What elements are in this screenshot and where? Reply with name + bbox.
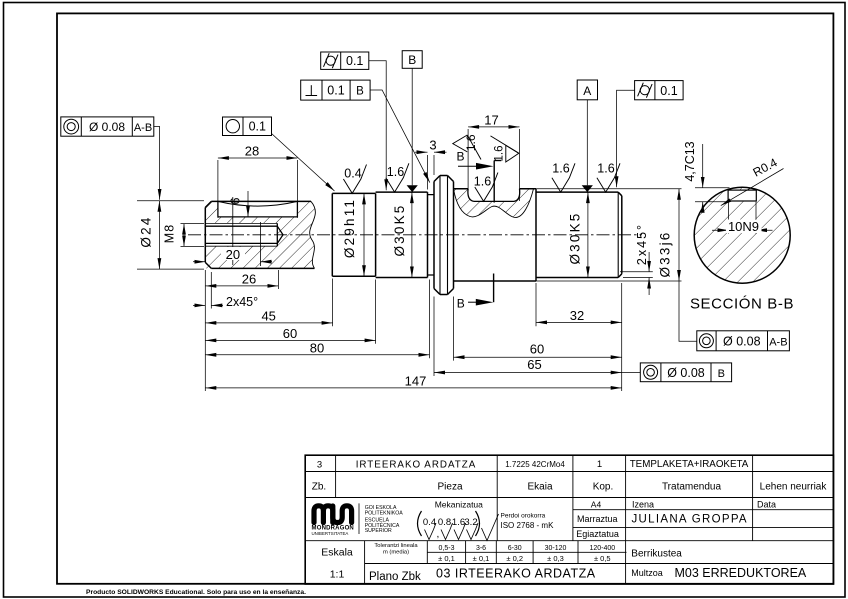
svg-text:± 0,2: ± 0,2 — [506, 554, 523, 563]
svg-text:28: 28 — [245, 144, 259, 159]
svg-text:m (media): m (media) — [383, 549, 409, 555]
svg-text:Kop.: Kop. — [593, 482, 614, 493]
surface finish 1.6 rotated on keyway left wall — [453, 135, 481, 160]
leader to flange face — [370, 90, 430, 183]
svg-text:Izena: Izena — [632, 499, 654, 509]
keyway pocket on O24 — [218, 201, 298, 217]
svg-text:TEMPLAKETA+IRAOKETA: TEMPLAKETA+IRAOKETA — [630, 459, 749, 470]
GDT frame cylindricity 0.1 right — [635, 81, 684, 100]
leader to O29 surface — [272, 134, 335, 192]
svg-text:0.8: 0.8 — [438, 517, 451, 528]
GDT frame runout O0.08 B right — [640, 363, 731, 382]
svg-text:3: 3 — [429, 137, 436, 152]
svg-text:Ø24: Ø24 — [138, 215, 153, 247]
svg-text:0,5-3: 0,5-3 — [439, 545, 455, 552]
svg-text:20: 20 — [226, 247, 240, 262]
svg-text:30-120: 30-120 — [545, 545, 567, 552]
shaft section O30K5 right with end chamfer — [536, 192, 622, 277]
svg-text:A4: A4 — [591, 499, 602, 509]
svg-text:± 0,5: ± 0,5 — [594, 554, 611, 563]
svg-text:1.6: 1.6 — [387, 165, 404, 179]
centerline of shaft — [188, 234, 642, 236]
leader down to O30K5 left surface — [369, 61, 386, 191]
svg-text:1.6: 1.6 — [494, 146, 506, 162]
leader from top-left frame down to O24 extension — [154, 127, 160, 200]
svg-text:60: 60 — [530, 342, 544, 357]
svg-text:1:1: 1:1 — [330, 569, 345, 581]
svg-text:R0.4: R0.4 — [751, 155, 780, 179]
Mondragon logo — [314, 506, 352, 523]
svg-text:2x45°: 2x45° — [226, 295, 258, 309]
svg-text:Marraztua: Marraztua — [577, 514, 618, 524]
svg-text:0.1: 0.1 — [327, 84, 344, 98]
dimension O30K5 right — [587, 192, 589, 277]
svg-text:1.7225 42CrMo4: 1.7225 42CrMo4 — [505, 460, 565, 469]
flange — [434, 176, 454, 295]
svg-text:32: 32 — [570, 308, 584, 323]
svg-text:IRTEERAKO ARDATZA: IRTEERAKO ARDATZA — [356, 460, 477, 471]
svg-text:1.6: 1.6 — [452, 517, 465, 528]
wavy break line — [310, 201, 316, 268]
svg-text:Tolerantzi lineala: Tolerantzi lineala — [374, 543, 418, 549]
shaft section O30K5 left — [376, 192, 428, 277]
GDT frame concentricity O0.08 A-B top-left — [61, 117, 154, 136]
datum A box — [577, 80, 597, 100]
svg-text:1: 1 — [597, 459, 602, 470]
svg-text:17: 17 — [484, 112, 498, 127]
shaft section O24 hatch (local section) — [205, 201, 315, 268]
svg-text:65: 65 — [527, 357, 541, 372]
svg-text:Multzoa: Multzoa — [631, 568, 663, 578]
svg-text:45: 45 — [261, 308, 275, 323]
svg-text:Berrikustea: Berrikustea — [631, 549, 682, 560]
svg-text:Ø30K5: Ø30K5 — [568, 211, 583, 264]
svg-text:0.1: 0.1 — [660, 84, 677, 98]
datum A leader and triangle — [586, 100, 588, 186]
svg-text:B: B — [356, 86, 364, 98]
svg-text:0.4: 0.4 — [344, 166, 361, 180]
dimension 20 (thread depth) — [193, 261, 272, 263]
dimension 6 keyway depth — [247, 191, 249, 217]
dimension 60 right — [454, 356, 622, 358]
svg-text:3.2: 3.2 — [464, 517, 477, 528]
svg-text:Lehen neurriak: Lehen neurriak — [760, 482, 828, 493]
svg-text:1.6: 1.6 — [474, 174, 491, 188]
dimension 3 neck — [415, 151, 447, 153]
svg-text:M03 ERREDUKTOREA: M03 ERREDUKTOREA — [675, 566, 807, 580]
dimension 26 — [205, 285, 278, 287]
svg-text:Plano Zbk: Plano Zbk — [369, 571, 421, 583]
surface finish 1.6 on O30K5 right b — [597, 163, 620, 192]
svg-text:± 0,1: ± 0,1 — [438, 554, 455, 563]
svg-text:0.4: 0.4 — [423, 517, 436, 528]
dimension O30K5 left — [411, 192, 413, 277]
SECTION B-B circle — [694, 187, 790, 283]
svg-text:Ø29h11: Ø29h11 — [342, 198, 357, 258]
surface finish 1.6 on O30K5 right a — [552, 163, 575, 192]
svg-text:3: 3 — [317, 460, 322, 471]
svg-text:Ø 0.08: Ø 0.08 — [667, 366, 705, 380]
extension lines (thin) — [137, 129, 682, 391]
dimension 147 — [205, 387, 621, 389]
svg-text:4,7C13: 4,7C13 — [683, 141, 697, 181]
svg-text:Ø33j6: Ø33j6 — [658, 230, 673, 277]
svg-text:JULIANA GROPPA: JULIANA GROPPA — [632, 514, 748, 526]
surface finish 1.6 on keyway floor — [475, 173, 498, 202]
svg-text:SECCIÓN B-B: SECCIÓN B-B — [690, 296, 794, 313]
dimension O33j6 with leader down to runout frame — [678, 189, 680, 281]
spline break boundary — [454, 189, 534, 218]
aux line in section — [232, 197, 234, 265]
dimension 32 — [536, 321, 622, 323]
surface finish 1.6 on O30K5 left — [386, 163, 409, 192]
dimension O24 — [158, 201, 160, 269]
section arrow B upper — [458, 161, 501, 203]
svg-text:A: A — [583, 84, 591, 98]
GDT frame runout O0.08 A-B right — [697, 331, 790, 351]
dimension 80 — [205, 354, 429, 356]
thread length boundary (20) — [260, 222, 262, 266]
svg-text:3-6: 3-6 — [476, 545, 486, 552]
surface finish 1.6 rotated on keyway right wall — [491, 136, 519, 162]
svg-text:Ø 0.08: Ø 0.08 — [89, 120, 125, 134]
svg-text:Zb.: Zb. — [312, 482, 326, 493]
svg-text:B: B — [456, 150, 464, 164]
GDT frame circularity 0.1 — [223, 117, 272, 136]
svg-text:Pieza: Pieza — [437, 482, 462, 493]
svg-text:Eskala: Eskala — [321, 547, 353, 559]
dimension 28 keyway — [218, 157, 298, 159]
svg-text:1.6: 1.6 — [464, 134, 478, 151]
svg-text:POLITEKNIKOA: POLITEKNIKOA — [365, 510, 404, 516]
dimension 17 keyway — [468, 126, 519, 128]
svg-text:80: 80 — [310, 340, 324, 355]
relief neck 3mm — [428, 195, 435, 275]
GDT frame cylindricity 0.1 top — [321, 52, 369, 69]
dimension O29h11 — [363, 193, 365, 276]
datum B box — [402, 51, 422, 69]
svg-text:B: B — [457, 297, 465, 311]
svg-text:± 0,1: ± 0,1 — [473, 554, 490, 563]
surface finish 0.4 on O29h11 — [343, 165, 366, 194]
svg-text:0.1: 0.1 — [249, 120, 266, 134]
shaft section O24 outline — [205, 201, 314, 268]
dimension 45 — [205, 322, 332, 324]
svg-text:± 0,3: ± 0,3 — [547, 554, 564, 563]
svg-text:Producto SOLIDWORKS Educationa: Producto SOLIDWORKS Educational. Solo pa… — [86, 589, 306, 596]
svg-text:ISO 2768 - mK: ISO 2768 - mK — [501, 521, 555, 530]
svg-text:03 IRTEERAKO ARDATZA: 03 IRTEERAKO ARDATZA — [436, 567, 596, 581]
shaft section O29h11 — [332, 193, 375, 276]
svg-text:Tratamendua: Tratamendua — [662, 482, 722, 493]
svg-text:A-B: A-B — [769, 336, 787, 348]
svg-text:6-30: 6-30 — [508, 545, 522, 552]
svg-text:26: 26 — [242, 271, 256, 286]
svg-text:A-B: A-B — [134, 122, 152, 134]
svg-text:B: B — [718, 368, 725, 380]
svg-text:Data: Data — [757, 499, 776, 509]
svg-text:Ø 0.08: Ø 0.08 — [723, 334, 761, 348]
svg-text:60: 60 — [283, 326, 297, 341]
svg-text:Ø30K5: Ø30K5 — [392, 203, 407, 256]
dimension 2x45 chamfer left — [193, 304, 223, 306]
svg-text:,: , — [437, 529, 440, 540]
svg-text:SUPERIOR: SUPERIOR — [365, 528, 392, 534]
dimension 2x45 chamfer right (rotated) — [648, 252, 650, 295]
section arrow B lower — [468, 274, 494, 303]
svg-text:Mekanizatua: Mekanizatua — [435, 500, 483, 510]
svg-text:1.6: 1.6 — [552, 161, 569, 175]
leader down to right end surface — [617, 90, 635, 187]
svg-text:1.6: 1.6 — [597, 161, 614, 175]
dimension 65 with leader to runout frame — [434, 372, 622, 374]
keyway local section hatch on O33 — [454, 189, 534, 218]
GDT frame perpendicularity 0.1 B — [301, 80, 370, 100]
title block grid — [305, 455, 833, 584]
svg-text:Ekaia: Ekaia — [527, 482, 552, 493]
svg-text:120-400: 120-400 — [589, 545, 615, 552]
leader R0.4 — [721, 169, 784, 206]
svg-text:B: B — [408, 53, 416, 67]
svg-text:Egiaztatua: Egiaztatua — [576, 529, 619, 539]
keyway slot outline on O33 — [468, 189, 520, 202]
svg-text:147: 147 — [405, 373, 427, 388]
datum B leader and triangle — [411, 68, 413, 185]
svg-text:6: 6 — [229, 197, 243, 204]
dimension 60 left — [205, 339, 375, 341]
dimension 10N9 — [712, 202, 773, 234]
svg-text:Perdoi orokorra: Perdoi orokorra — [501, 513, 546, 520]
dimension M8 — [183, 224, 185, 247]
svg-text:UNIBERTSITATEA: UNIBERTSITATEA — [312, 531, 349, 536]
svg-text:2x45°: 2x45° — [635, 223, 649, 265]
keyway slot in section — [728, 190, 756, 201]
svg-text:10N9: 10N9 — [728, 219, 759, 234]
shaft section O33j6 — [454, 189, 537, 281]
svg-text:0.1: 0.1 — [346, 54, 363, 68]
M8 tapped hole — [205, 223, 283, 246]
dimension 4.7C13 — [695, 144, 730, 212]
svg-text:M8: M8 — [162, 224, 176, 243]
